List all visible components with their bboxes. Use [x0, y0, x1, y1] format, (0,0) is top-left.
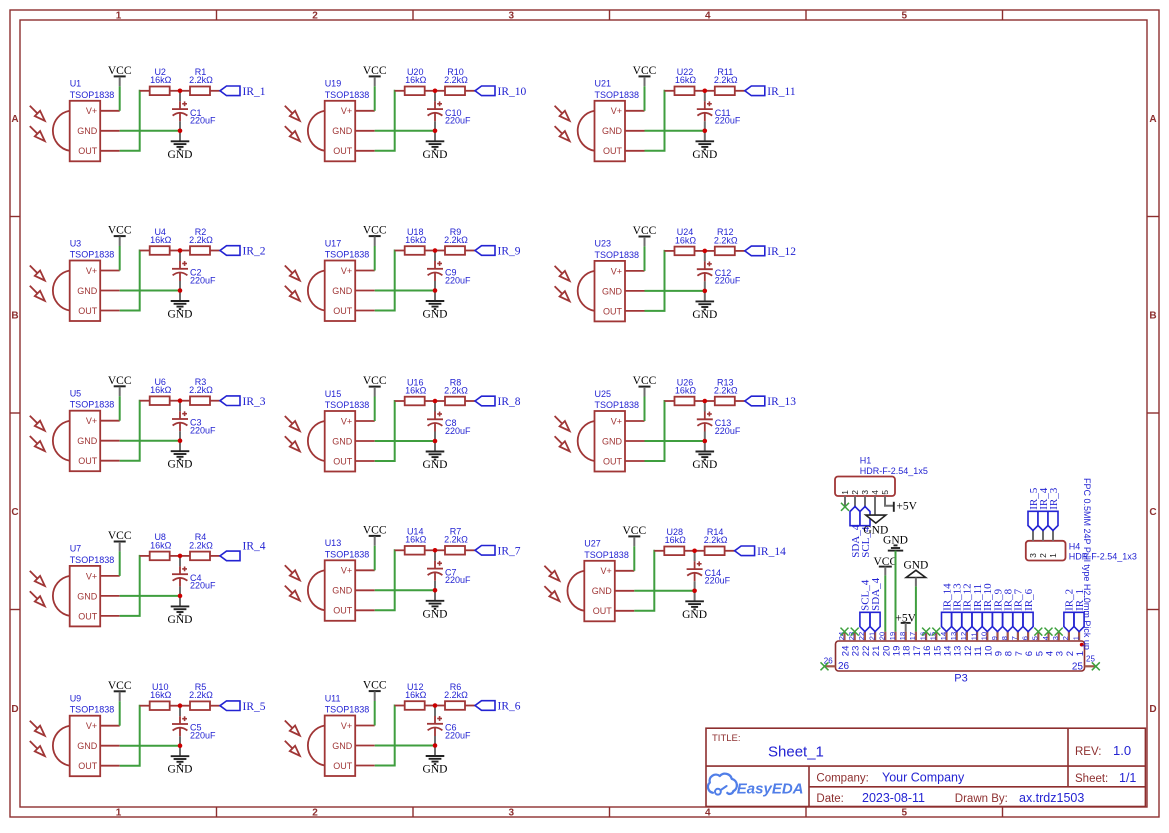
wire OUT to resistor U12	[375, 706, 396, 766]
svg-text:2.2kΩ: 2.2kΩ	[444, 690, 468, 700]
svg-text:TSOP1838: TSOP1838	[70, 400, 115, 410]
svg-text:2.2kΩ: 2.2kΩ	[189, 235, 213, 245]
svg-text:OUT: OUT	[333, 606, 353, 616]
svg-text:2: 2	[312, 11, 318, 22]
ground GND symbol	[692, 441, 717, 471]
junction node at resistor divider	[178, 703, 183, 708]
svg-text:IR_3: IR_3	[1048, 487, 1060, 510]
svg-text:TSOP1838: TSOP1838	[325, 400, 370, 410]
resistor U2 16kΩ	[140, 67, 180, 95]
svg-text:V+: V+	[341, 106, 352, 116]
wire V+ to VCC	[374, 397, 376, 422]
no-connect X on P3 pin 15	[932, 628, 940, 636]
svg-text:U17: U17	[325, 238, 342, 248]
IR receiver U27 (TSOP1838)	[544, 539, 634, 622]
net flag IR_14	[735, 546, 787, 558]
junction node at ground	[433, 129, 438, 134]
junction node at ground	[703, 289, 708, 294]
H1 pin 4 wire	[874, 496, 876, 515]
svg-text:OUT: OUT	[333, 456, 353, 466]
junction node at resistor divider	[433, 248, 438, 253]
H4 pin 2 wire	[1042, 531, 1044, 541]
resistor R10 2.2kΩ	[435, 67, 475, 95]
net port IR_1 on P3 pin 1	[1074, 589, 1086, 632]
resistor U10 16kΩ	[140, 682, 180, 710]
net port SCL_4 on P3 pin 22	[860, 579, 872, 631]
svg-text:6: 6	[1020, 636, 1029, 640]
svg-text:11: 11	[969, 632, 978, 640]
svg-text:1: 1	[116, 11, 122, 22]
svg-text:GND: GND	[423, 149, 448, 161]
capacitor C3 220uF	[172, 403, 216, 441]
wire GND pin to capacitor node	[645, 130, 705, 132]
svg-text:220uF: 220uF	[190, 581, 216, 591]
svg-text:1: 1	[1048, 553, 1058, 558]
svg-text:Drawn By:: Drawn By:	[955, 793, 1008, 805]
svg-text:220uF: 220uF	[445, 730, 471, 740]
ground GND symbol	[423, 746, 448, 776]
ground GND (triangle) for H1 pin 4	[863, 515, 888, 536]
svg-text:Date:: Date:	[816, 793, 844, 805]
svg-text:U27: U27	[584, 539, 601, 549]
resistor U6 16kΩ	[140, 377, 180, 405]
wire V+ to VCC	[633, 546, 635, 571]
svg-text:OUT: OUT	[78, 761, 98, 771]
svg-text:2.2kΩ: 2.2kΩ	[189, 75, 213, 85]
svg-text:V+: V+	[341, 266, 352, 276]
ground GND symbol	[168, 746, 193, 776]
wire OUT to resistor U20	[375, 91, 396, 151]
svg-text:2.2kΩ: 2.2kΩ	[444, 385, 468, 395]
svg-text:22: 22	[857, 632, 866, 640]
svg-text:2.2kΩ: 2.2kΩ	[444, 235, 468, 245]
H4 pin 3 wire	[1032, 531, 1034, 541]
svg-text:1.0: 1.0	[1113, 743, 1131, 758]
svg-text:16kΩ: 16kΩ	[675, 75, 697, 85]
VCC power symbol	[108, 375, 132, 396]
net port IR_10 on P3 pin 10	[982, 583, 994, 632]
title block	[706, 728, 1145, 806]
connector H4 HDR-F-2.54_1x3	[1026, 541, 1137, 562]
svg-text:GND: GND	[682, 609, 707, 621]
resistor U24 16kΩ	[665, 227, 705, 255]
IR receiver U23 (TSOP1838)	[555, 239, 645, 322]
no-connect X on P3 pin 24	[841, 628, 849, 636]
svg-text:U1: U1	[70, 79, 82, 89]
VCC power symbol	[108, 225, 132, 246]
net port IR_5 on H4 pin 3	[1028, 487, 1040, 530]
wire GND pin to capacitor node	[375, 589, 435, 591]
power flag +5V (H1 pin 5)	[894, 500, 918, 512]
svg-text:10: 10	[980, 632, 989, 640]
svg-text:OUT: OUT	[603, 306, 623, 316]
IR receiver U9 (TSOP1838)	[30, 694, 120, 777]
net flag IR_7	[475, 546, 521, 558]
net port IR_7 on P3 pin 7	[1013, 588, 1025, 631]
svg-text:18: 18	[898, 632, 907, 640]
svg-text:4: 4	[705, 808, 711, 819]
resistor U26 16kΩ	[665, 377, 705, 405]
svg-text:TSOP1838: TSOP1838	[70, 705, 115, 715]
svg-text:1: 1	[116, 808, 122, 819]
svg-text:2.2kΩ: 2.2kΩ	[189, 540, 213, 550]
svg-text:2.2kΩ: 2.2kΩ	[189, 385, 213, 395]
IR receiver U11 (TSOP1838)	[285, 693, 375, 776]
svg-text:GND: GND	[602, 286, 623, 296]
wire V+ to VCC	[119, 396, 121, 421]
svg-text:220uF: 220uF	[715, 426, 741, 436]
svg-text:VCC: VCC	[633, 225, 657, 237]
svg-text:IR_7: IR_7	[498, 546, 521, 558]
svg-text:3: 3	[860, 490, 870, 495]
resistor U16 16kΩ	[395, 377, 435, 405]
wire OUT to resistor U18	[375, 251, 396, 311]
net flag IR_2	[220, 246, 266, 258]
wire OUT to resistor U10	[120, 706, 141, 766]
wire GND pin to capacitor node	[120, 745, 180, 747]
junction node at ground	[178, 743, 183, 748]
svg-text:OUT: OUT	[333, 761, 353, 771]
svg-text:2.2kΩ: 2.2kΩ	[444, 535, 468, 545]
VCC power symbol	[363, 525, 387, 546]
VCC power symbol	[633, 225, 657, 246]
svg-text:2.2kΩ: 2.2kΩ	[444, 75, 468, 85]
svg-text:VCC: VCC	[108, 375, 132, 387]
VCC power symbol	[622, 525, 646, 546]
svg-text:VCC: VCC	[622, 525, 646, 537]
ground GND (flipped) on P3 pin 19	[883, 535, 908, 551]
svg-text:GND: GND	[168, 149, 193, 161]
svg-text:V+: V+	[86, 106, 97, 116]
capacitor C6 220uF	[427, 708, 471, 746]
H1 pin 3 wire	[864, 496, 866, 507]
svg-text:2: 2	[1061, 636, 1070, 640]
svg-text:D: D	[11, 704, 18, 715]
svg-text:IR_3: IR_3	[243, 396, 266, 408]
svg-text:25: 25	[1072, 662, 1084, 673]
svg-text:GND: GND	[168, 459, 193, 471]
svg-text:VCC: VCC	[108, 225, 132, 237]
capacitor C9 220uF	[427, 253, 471, 291]
VCC power symbol	[363, 375, 387, 396]
net flag IR_11	[745, 86, 796, 98]
svg-text:3: 3	[508, 11, 514, 22]
svg-text:U11: U11	[325, 693, 341, 703]
wire OUT to resistor U22	[645, 91, 666, 151]
IR receiver U5 (TSOP1838)	[30, 389, 120, 472]
svg-text:4: 4	[870, 490, 880, 495]
IR receiver U15 (TSOP1838)	[285, 389, 375, 472]
net port SCL_4 (H1 pin 3)	[860, 507, 872, 558]
no-connect X on P3 pin 16	[922, 628, 930, 636]
svg-text:VCC: VCC	[363, 225, 387, 237]
junction node at ground	[703, 439, 708, 444]
VCC power symbol	[108, 680, 132, 701]
junction node at resistor divider	[178, 554, 183, 559]
svg-text:GND: GND	[332, 436, 353, 446]
svg-text:P3: P3	[954, 672, 967, 684]
VCC power symbol	[363, 680, 387, 701]
svg-text:16kΩ: 16kΩ	[150, 540, 172, 550]
junction node at resistor divider	[703, 399, 708, 404]
capacitor C12 220uF	[697, 253, 741, 291]
svg-text:VCC: VCC	[108, 680, 132, 692]
svg-text:IR_11: IR_11	[767, 86, 796, 98]
svg-text:1: 1	[1071, 636, 1080, 640]
wire V+ to VCC	[374, 86, 376, 111]
junction node at ground	[433, 743, 438, 748]
VCC power symbol	[363, 225, 387, 246]
junction node at resistor divider	[703, 89, 708, 94]
junction node at ground	[433, 439, 438, 444]
wire GND pin to capacitor node	[120, 290, 180, 292]
ground GND (triangle) on P3 pin 17	[903, 560, 928, 587]
svg-text:U21: U21	[595, 79, 612, 89]
net flag IR_1	[220, 86, 266, 98]
svg-text:23: 23	[847, 632, 856, 640]
svg-text:GND: GND	[423, 309, 448, 321]
svg-text:16kΩ: 16kΩ	[405, 535, 427, 545]
IR receiver U1 (TSOP1838)	[30, 79, 120, 162]
ground GND symbol	[423, 131, 448, 161]
svg-text:V+: V+	[86, 571, 97, 581]
svg-text:TSOP1838: TSOP1838	[70, 90, 115, 100]
svg-text:U9: U9	[70, 694, 82, 704]
junction node at ground	[433, 288, 438, 293]
svg-text:VCC: VCC	[108, 530, 132, 542]
ground GND symbol	[682, 591, 707, 621]
resistor R8 2.2kΩ	[435, 377, 475, 405]
junction node at ground	[433, 588, 438, 593]
VCC power symbol	[633, 375, 657, 396]
wire GND pin to capacitor node	[375, 130, 435, 132]
wire OUT to resistor U24	[645, 251, 666, 311]
power flag +5V on P3 pin 18	[895, 612, 916, 631]
net flag IR_13	[745, 396, 797, 408]
svg-text:OUT: OUT	[603, 146, 623, 156]
svg-text:26: 26	[838, 661, 850, 672]
svg-text:IR_14: IR_14	[757, 546, 786, 558]
svg-text:Sheet:: Sheet:	[1075, 773, 1108, 785]
svg-text:U13: U13	[325, 538, 342, 548]
svg-text:VCC: VCC	[363, 375, 387, 387]
svg-text:13: 13	[949, 632, 958, 640]
ground GND symbol	[423, 590, 448, 620]
wire OUT to resistor U26	[645, 401, 666, 461]
net flag IR_5	[220, 701, 266, 713]
svg-text:12: 12	[959, 632, 968, 640]
svg-text:A: A	[11, 114, 18, 125]
wire V+ to VCC	[644, 86, 646, 111]
IR receiver U3 (TSOP1838)	[30, 238, 120, 321]
wire GND to P3 pin 17	[915, 586, 917, 631]
resistor U4 16kΩ	[140, 227, 180, 255]
svg-text:V+: V+	[601, 566, 612, 576]
ground GND symbol	[168, 131, 193, 161]
svg-text:7: 7	[1010, 636, 1019, 640]
svg-text:2: 2	[850, 490, 860, 495]
net port IR_2 on P3 pin 2	[1064, 589, 1076, 632]
resistor U18 16kΩ	[395, 227, 435, 255]
svg-text:16kΩ: 16kΩ	[405, 385, 427, 395]
net port IR_8 on P3 pin 8	[1003, 588, 1015, 631]
wire GND pin to capacitor node	[645, 290, 705, 292]
resistor R1 2.2kΩ	[180, 67, 220, 95]
svg-text:IR_1: IR_1	[1074, 589, 1086, 611]
net port IR_3 on H4 pin 1	[1048, 487, 1060, 530]
svg-text:1: 1	[1075, 651, 1086, 656]
svg-text:14: 14	[939, 632, 948, 640]
svg-text:16kΩ: 16kΩ	[675, 385, 697, 395]
wire V+ to VCC	[374, 246, 376, 271]
svg-text:8: 8	[1000, 636, 1009, 640]
svg-text:19: 19	[888, 632, 897, 640]
connector H1 HDR-F-2.54_1x5	[835, 456, 928, 496]
svg-text:5: 5	[1031, 636, 1040, 640]
ground GND symbol	[423, 441, 448, 471]
svg-text:3: 3	[1051, 636, 1060, 640]
wire OUT to resistor U14	[375, 550, 396, 610]
net flag IR_12	[745, 246, 797, 258]
svg-text:HDR-F-2.54_1x5: HDR-F-2.54_1x5	[860, 466, 928, 476]
svg-text:SDA_4: SDA_4	[870, 577, 882, 611]
svg-text:U25: U25	[595, 389, 612, 399]
svg-text:OUT: OUT	[78, 146, 98, 156]
svg-text:16kΩ: 16kΩ	[675, 235, 697, 245]
capacitor C4 220uF	[172, 558, 216, 596]
svg-text:GND: GND	[692, 459, 717, 471]
svg-text:IR_1: IR_1	[243, 86, 266, 98]
resistor R6 2.2kΩ	[435, 682, 475, 710]
svg-text:IR_10: IR_10	[498, 86, 527, 98]
svg-text:+5V: +5V	[896, 500, 917, 512]
IR receiver U19 (TSOP1838)	[285, 79, 375, 162]
svg-text:GND: GND	[77, 741, 98, 751]
capacitor C11 220uF	[697, 93, 741, 131]
svg-text:15: 15	[929, 632, 938, 640]
svg-text:GND: GND	[332, 126, 353, 136]
connector P3 FPC 24P	[836, 641, 1085, 671]
capacitor C2 220uF	[172, 253, 216, 291]
svg-text:U23: U23	[595, 239, 612, 249]
H4 pin 1 wire	[1052, 531, 1054, 541]
svg-text:VCC: VCC	[633, 65, 657, 77]
IR receiver U21 (TSOP1838)	[555, 79, 645, 162]
svg-text:C: C	[11, 507, 18, 518]
resistor R12 2.2kΩ	[705, 227, 745, 255]
svg-text:16kΩ: 16kΩ	[405, 690, 427, 700]
svg-text:GND: GND	[602, 436, 623, 446]
wire GND pin to capacitor node	[375, 745, 435, 747]
svg-text:2.2kΩ: 2.2kΩ	[714, 75, 738, 85]
svg-text:VCC: VCC	[633, 375, 657, 387]
svg-text:16kΩ: 16kΩ	[150, 385, 172, 395]
resistor R7 2.2kΩ	[435, 527, 475, 555]
svg-text:OUT: OUT	[78, 456, 98, 466]
wire GND pin to capacitor node	[375, 290, 435, 292]
svg-text:V+: V+	[86, 416, 97, 426]
resistor R4 2.2kΩ	[180, 532, 220, 560]
svg-text:220uF: 220uF	[715, 116, 741, 126]
svg-text:V+: V+	[611, 416, 622, 426]
svg-text:220uF: 220uF	[190, 275, 216, 285]
resistor R13 2.2kΩ	[705, 377, 745, 405]
net flag IR_4	[220, 540, 266, 560]
svg-text:5: 5	[901, 11, 907, 22]
svg-text:TSOP1838: TSOP1838	[595, 400, 640, 410]
wire GND pin to capacitor node	[120, 595, 180, 597]
svg-text:OUT: OUT	[78, 306, 98, 316]
wire V+ to VCC	[644, 246, 646, 271]
wire GND pin to capacitor node	[120, 440, 180, 442]
wire V+ to VCC	[119, 551, 121, 576]
svg-text:4: 4	[1041, 636, 1050, 640]
capacitor C13 220uF	[697, 403, 741, 441]
svg-text:TSOP1838: TSOP1838	[584, 550, 629, 560]
svg-text:GND: GND	[168, 309, 193, 321]
svg-text:IR_12: IR_12	[767, 246, 796, 258]
svg-text:2: 2	[1038, 553, 1048, 558]
EasyEDA logo	[708, 774, 804, 798]
svg-text:Your Company: Your Company	[882, 771, 965, 785]
no-connect X on P3 pin 3	[1055, 628, 1063, 636]
wire VCC to P3 pin 20	[884, 575, 886, 631]
svg-text:25: 25	[1086, 654, 1095, 663]
net port IR_9 on P3 pin 9	[992, 588, 1004, 631]
svg-text:220uF: 220uF	[445, 575, 471, 585]
resistor R14 2.2kΩ	[695, 527, 735, 555]
P3 pin 26 (left side, no-connect)	[821, 656, 850, 672]
svg-text:TSOP1838: TSOP1838	[325, 90, 370, 100]
svg-text:GND: GND	[592, 586, 613, 596]
svg-text:220uF: 220uF	[190, 116, 216, 126]
resistor R3 2.2kΩ	[180, 377, 220, 405]
svg-text:U5: U5	[70, 389, 82, 399]
capacitor C7 220uF	[427, 552, 471, 590]
wire GND pin to capacitor node	[645, 440, 705, 442]
net port IR_14 on P3 pin 14	[941, 583, 953, 632]
capacitor C14 220uF	[687, 553, 731, 591]
svg-text:2023-08-11: 2023-08-11	[862, 791, 925, 805]
junction node at resistor divider	[433, 399, 438, 404]
svg-text:24: 24	[837, 632, 846, 640]
svg-text:OUT: OUT	[333, 146, 353, 156]
resistor U8 16kΩ	[140, 532, 180, 560]
VCC power symbol	[633, 65, 657, 86]
ground GND symbol	[168, 596, 193, 626]
svg-text:3: 3	[1028, 553, 1038, 558]
svg-text:TSOP1838: TSOP1838	[70, 250, 115, 260]
svg-text:26: 26	[824, 656, 833, 665]
svg-text:OUT: OUT	[333, 306, 353, 316]
ground GND symbol	[168, 291, 193, 321]
power flag VCC on P3 pin 20	[873, 556, 897, 576]
resistor R11 2.2kΩ	[705, 67, 745, 95]
junction node at ground	[178, 129, 183, 134]
P3 pin-1 marker dot	[1080, 643, 1084, 647]
svg-text:220uF: 220uF	[705, 576, 731, 586]
svg-text:EasyEDA: EasyEDA	[737, 780, 804, 797]
svg-text:H4: H4	[1069, 541, 1081, 551]
svg-text:IR_4: IR_4	[243, 540, 266, 552]
junction node at resistor divider	[178, 398, 183, 403]
svg-text:IR_13: IR_13	[767, 396, 796, 408]
svg-text:16kΩ: 16kΩ	[150, 690, 172, 700]
net port IR_11 on P3 pin 11	[972, 584, 984, 632]
resistor U12 16kΩ	[395, 682, 435, 710]
svg-text:GND: GND	[332, 286, 353, 296]
svg-text:5: 5	[901, 808, 907, 819]
